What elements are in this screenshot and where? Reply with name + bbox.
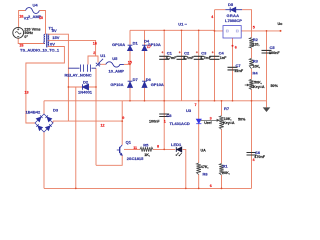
resistor R1 — [219, 164, 223, 176]
svg-text:4: 4 — [211, 15, 214, 19]
resistor R6 — [197, 163, 201, 175]
capacitor C7 — [228, 67, 238, 70]
wire regulator gnd pin C7 — [232, 38, 234, 101]
svg-text:3: 3 — [210, 117, 212, 121]
wire C4 regulator input vertical — [214, 10, 216, 101]
wire gnd stub — [266, 101, 268, 108]
svg-text:Uo: Uo — [278, 22, 284, 26]
wire D2 line — [68, 86, 96, 88]
wire 5V tap — [50, 34, 69, 121]
transformer T1 — [44, 34, 50, 48]
svg-text:C3: C3 — [201, 51, 207, 56]
svg-text:C7: C7 — [236, 63, 242, 68]
wire 0V tap net 13 — [26, 47, 65, 124]
resistor R2 — [249, 38, 253, 49]
wire D4 D6 vertical — [144, 30, 146, 101]
svg-text:V1: V1 — [24, 15, 30, 20]
svg-text:6: 6 — [210, 184, 212, 188]
capacitor C6 — [247, 153, 257, 156]
resistor R5 — [140, 147, 153, 151]
svg-text:C5: C5 — [270, 45, 276, 50]
svg-text:R4: R4 — [253, 70, 259, 75]
svg-text:100nF: 100nF — [269, 51, 280, 55]
svg-text:13: 13 — [25, 91, 29, 95]
svg-text:U1: U1 — [178, 21, 184, 26]
svg-text:4.7mF: 4.7mF — [166, 56, 177, 60]
svg-text:20K,: 20K, — [222, 171, 230, 175]
svg-text:10K,: 10K, — [252, 64, 260, 68]
wire C5 vertical — [266, 31, 268, 101]
svg-text:RELAY_NONC: RELAY_NONC — [65, 73, 92, 78]
svg-text:17: 17 — [147, 45, 151, 49]
regulator U2 L7808CP — [223, 26, 241, 38]
svg-text:D2: D2 — [83, 79, 89, 84]
svg-text:TS_AUDIO_10_TO_1: TS_AUDIO_10_TO_1 — [20, 48, 60, 53]
wire Q1 collector to R5 net 11 — [124, 148, 140, 150]
wire mid rail y100 — [44, 100, 267, 102]
svg-text:Uref: Uref — [204, 121, 212, 125]
svg-text:4.7mF: 4.7mF — [183, 56, 194, 60]
svg-text:D3: D3 — [53, 108, 59, 113]
svg-text:5V: 5V — [52, 28, 57, 33]
svg-text:120,: 120, — [252, 43, 259, 47]
svg-text:Key=A: Key=A — [253, 85, 265, 89]
svg-text:5: 5 — [253, 26, 255, 30]
svg-text:1: 1 — [164, 120, 166, 124]
svg-text:U4: U4 — [33, 3, 39, 8]
ground — [263, 107, 271, 112]
capacitor C5 — [262, 50, 272, 53]
svg-text:LED1: LED1 — [171, 142, 182, 147]
svg-text:Q1: Q1 — [126, 140, 132, 145]
svg-text:10_AMP: 10_AMP — [109, 68, 125, 73]
svg-text:R3: R3 — [253, 59, 259, 64]
wire relay coil right to D2 to emitter staircase — [95, 68, 97, 165]
wire bridge bottom — [43, 132, 45, 188]
svg-text:0V: 0V — [50, 42, 55, 47]
wire relay contact to fuse U5 — [101, 63, 106, 65]
LED1 — [176, 147, 182, 156]
svg-text:GP10A: GP10A — [110, 82, 123, 87]
svg-text:7: 7 — [195, 103, 197, 107]
svg-text:1N4001: 1N4001 — [78, 90, 93, 95]
diode D7 — [128, 81, 133, 87]
svg-text:R5: R5 — [143, 143, 149, 148]
svg-text:TL431ACD: TL431ACD — [170, 121, 190, 126]
wire D1 D7 vertical — [129, 30, 131, 101]
svg-text:C1: C1 — [167, 51, 173, 56]
svg-text:470nF: 470nF — [254, 155, 265, 159]
capacitor C2 — [177, 51, 187, 59]
svg-text:12: 12 — [101, 123, 105, 127]
svg-text:C8: C8 — [166, 113, 172, 118]
svg-text:1nF: 1nF — [220, 56, 227, 60]
svg-text:47K,: 47K, — [201, 165, 209, 169]
diode D5 — [225, 7, 242, 12]
wire fuse to D1 junction — [124, 63, 130, 65]
wire regulator pins — [215, 30, 281, 32]
wire top rail — [130, 29, 215, 31]
wire R5 to LED — [153, 148, 175, 150]
svg-text:0°: 0° — [24, 35, 28, 39]
wire 15V tap — [50, 40, 96, 56]
diode D1 — [128, 45, 133, 50]
wire bridge top — [43, 101, 45, 114]
svg-text:GP10A: GP10A — [112, 42, 125, 47]
wire C2 vertical — [181, 30, 183, 101]
svg-text:GP10A: GP10A — [151, 82, 164, 87]
wire D5 top loop — [215, 10, 252, 31]
svg-text:D1: D1 — [133, 41, 139, 46]
relay RELAY_NONC — [88, 56, 98, 65]
svg-text:D7: D7 — [133, 77, 139, 82]
wire V1 top to fuse — [19, 11, 46, 35]
svg-text:100nF: 100nF — [149, 119, 160, 123]
shunt reg U3 TL431 — [196, 119, 201, 124]
svg-text:1K,: 1K, — [144, 153, 150, 157]
svg-text:50%: 50% — [271, 84, 279, 88]
svg-text:50%: 50% — [238, 118, 246, 122]
svg-text:10: 10 — [39, 16, 43, 20]
svg-text:R7: R7 — [224, 106, 230, 111]
wire C8 vertical — [163, 101, 165, 150]
svg-text:D5: D5 — [228, 2, 234, 7]
wire LED right down — [183, 149, 186, 187]
svg-text:50K,: 50K, — [254, 80, 262, 84]
wire Q1 collector up — [121, 101, 123, 145]
svg-text:15V: 15V — [52, 35, 59, 40]
svg-text:9: 9 — [122, 116, 124, 120]
capacitor C8 — [159, 114, 169, 117]
capacitor C1 — [159, 51, 169, 59]
svg-text:UA: UA — [201, 149, 207, 153]
svg-text:22nF: 22nF — [235, 69, 244, 73]
svg-text:C2: C2 — [184, 51, 190, 56]
wire bridge right net 12 — [53, 121, 122, 123]
diode D2 1N4001 — [83, 84, 89, 90]
wire D2 left vertical — [75, 87, 77, 188]
wire V1 bottom to primary — [18, 38, 45, 43]
wire Q1 emitter staircase — [96, 155, 122, 165]
wire output column R2 R3 R4 C6 — [251, 31, 253, 189]
wire R7 column — [221, 101, 223, 189]
svg-text:U1: U1 — [100, 53, 106, 58]
wire C1 vertical — [163, 30, 165, 101]
capacitor C4 — [210, 51, 220, 59]
svg-text:R6: R6 — [203, 171, 209, 176]
transistor Q1 2SC1815 — [117, 145, 123, 156]
svg-text:R2: R2 — [253, 37, 259, 42]
svg-text:16: 16 — [93, 41, 97, 45]
svg-text:11: 11 — [133, 146, 137, 150]
diode D4 — [142, 45, 147, 50]
fuse U5 — [106, 62, 124, 67]
svg-text:R1: R1 — [223, 164, 229, 169]
svg-text:C4: C4 — [219, 51, 225, 56]
source V1 — [13, 27, 24, 38]
fuse U4 — [26, 8, 40, 14]
svg-text:6: 6 — [235, 46, 237, 50]
svg-text:U3: U3 — [186, 108, 192, 113]
resistor R3 — [249, 58, 253, 68]
svg-text:Key=A: Key=A — [223, 121, 235, 125]
svg-text:L7808CP: L7808CP — [225, 18, 242, 23]
wire C3 TL431 R6 vertical — [198, 30, 200, 188]
svg-text:1B4B42: 1B4B42 — [26, 110, 41, 115]
svg-text:8: 8 — [157, 145, 159, 149]
wire bottom rail — [44, 187, 252, 189]
bridge rectifier D3 — [35, 114, 53, 132]
potentiometer R4 — [249, 79, 253, 89]
svg-text:2SC1815: 2SC1815 — [127, 156, 144, 161]
potentiometer R7 — [219, 116, 223, 130]
svg-text:U5: U5 — [112, 56, 118, 61]
diode D6 — [142, 81, 147, 87]
svg-text:2: 2 — [93, 51, 95, 55]
capacitor C3 — [194, 51, 204, 59]
